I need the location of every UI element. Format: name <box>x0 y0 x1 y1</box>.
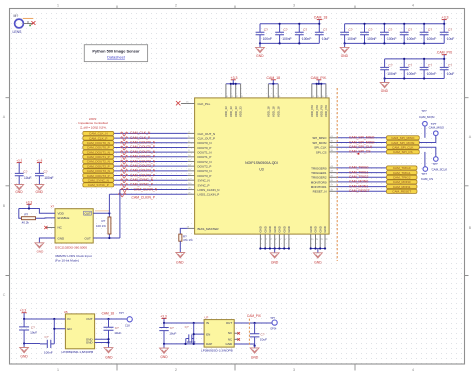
wire bank1 bottom rail <box>260 42 319 44</box>
U3 pin VDD_PIX <box>310 84 315 117</box>
port CAM_CLK_N <box>83 131 114 135</box>
svg-text:SPI_CS: SPI_CS <box>316 150 327 154</box>
svg-text:NOIP1SN0500A-QDI: NOIP1SN0500A-QDI <box>245 161 278 165</box>
U3 pin DOUT1_P <box>188 155 212 159</box>
svg-text:10uF: 10uF <box>447 72 455 76</box>
U3 pin VDD_PIX <box>319 84 324 117</box>
svg-text:LP38693SD-3.3/NOPB: LP38693SD-3.3/NOPB <box>201 349 233 353</box>
net label CAM_DOUT2_P <box>130 164 156 168</box>
wire CAM_DOUT1_N <box>114 151 188 153</box>
svg-text:CAM_DOUT2_P: CAM_DOUT2_P <box>130 164 156 168</box>
svg-text:C?: C? <box>428 63 432 67</box>
svg-text:CAM_TRIG0: CAM_TRIG0 <box>349 166 369 170</box>
svg-text:LP38693SD-1.8/NOPB: LP38693SD-1.8/NOPB <box>62 350 94 354</box>
svg-text:VDD_PIX: VDD_PIX <box>310 105 314 117</box>
capacitor C? 10uF reg2 output <box>250 323 267 346</box>
capacitor C? 10uF bank1-4 <box>315 24 330 44</box>
svg-text:40.2k: 40.2k <box>22 220 30 224</box>
svg-text:GND: GND <box>251 356 259 360</box>
svg-text:C?: C? <box>283 28 287 32</box>
svg-text:C?: C? <box>185 325 189 329</box>
svg-text:CAM_RESET: CAM_RESET <box>349 189 370 193</box>
junction EN reg2 <box>193 333 195 335</box>
wire CAM_DOUT3_N <box>114 170 188 172</box>
net label CAM_DOUT1_P <box>130 155 156 159</box>
U3 pin DOUT1_N <box>188 150 212 154</box>
frame column divider ticks bottom <box>117 364 355 371</box>
capacitor C? 100nF bank1-3 <box>295 24 311 44</box>
note LVDS impedance controlled <box>78 117 108 130</box>
power label +1.8 cap B <box>36 159 42 165</box>
svg-text:CAM_DOUT2_N: CAM_DOUT2_N <box>130 159 156 163</box>
svg-text:CAM_DOUT3_N: CAM_DOUT3_N <box>87 169 110 173</box>
U3 pin GND 50 <box>314 226 319 248</box>
svg-text:CAM_TRIG1: CAM_TRIG1 <box>393 171 411 175</box>
wire EN branch <box>51 319 65 344</box>
U3 pin CLK_PLL <box>181 101 211 106</box>
net label CAM_MON0 <box>349 180 368 184</box>
svg-text:GND: GND <box>20 355 28 359</box>
U3 pin DOUT3_N <box>188 169 212 173</box>
svg-text:CAM_SPI_MISO: CAM_SPI_MISO <box>349 136 375 140</box>
svg-text:TP?: TP? <box>270 316 275 320</box>
wire CAM_DOUT2_P <box>114 165 188 167</box>
svg-text:VDD_33: VDD_33 <box>239 106 243 117</box>
net label CAM_SPI_CS <box>349 150 371 154</box>
junctions bank3 <box>384 58 446 80</box>
wire input rail reg1 <box>24 318 65 320</box>
diff pair directive CAM_SYNC_P <box>120 184 128 188</box>
junction out reg2 <box>254 322 256 324</box>
svg-text:CAM_SYNC_N: CAM_SYNC_N <box>88 178 109 182</box>
diff pair directive CAM_DOUT2_N <box>120 160 128 164</box>
wire to ground <box>179 241 181 252</box>
svg-text:DOUT0_N: DOUT0_N <box>198 141 212 145</box>
svg-text:TRIGGER2: TRIGGER2 <box>311 176 327 180</box>
svg-text:+3.3: +3.3 <box>16 159 22 163</box>
svg-text:GND: GND <box>314 226 318 232</box>
net label CAM_CLKIN_P <box>132 195 156 199</box>
net label CAM_SYNC_P <box>130 183 154 187</box>
wire CAM_CLKIN_P <box>109 193 187 195</box>
U3 pin VDD_PIX <box>324 84 329 117</box>
junction out reg1 <box>107 318 109 320</box>
svg-text:CAM_DOUT1_N: CAM_DOUT1_N <box>130 150 156 154</box>
svg-text:CLK_OUT_P: CLK_OUT_P <box>198 136 216 140</box>
wire input rail reg2 <box>164 322 204 324</box>
svg-text:U?: U? <box>205 315 209 319</box>
svg-text:SYNC_N: SYNC_N <box>198 179 210 183</box>
wire CAM_DOUT3_P <box>114 175 188 177</box>
svg-text:CAM_SCLK: CAM_SCLK <box>432 167 448 171</box>
svg-text:SPI_CLK: SPI_CLK <box>314 146 326 150</box>
svg-text:CPIX: CPIX <box>270 327 276 331</box>
power label +3.3 osc <box>26 200 33 208</box>
svg-text:Z_diff = 100Ω 0.5%: Z_diff = 100Ω 0.5% <box>80 126 106 130</box>
diff pair directive CAM_DOUT0_N <box>120 141 128 145</box>
svg-text:100 1%: 100 1% <box>96 224 106 228</box>
net label CAM_CLK_P <box>130 136 151 140</box>
svg-text:DOUT2_P: DOUT2_P <box>198 165 212 169</box>
net label CAM_SYNC_N <box>130 178 154 182</box>
U3 pin GND 1 <box>259 226 263 248</box>
diff pair directive CAM_DOUT1_N <box>120 151 128 155</box>
svg-text:MONITOR1: MONITOR1 <box>311 185 327 189</box>
U3 pin VDD_33 <box>239 84 244 117</box>
U3 pin GND 6 <box>282 226 286 248</box>
capacitor C? 10uF bank2-6 <box>440 24 455 44</box>
svg-text:CAM_DOUT1_P: CAM_DOUT1_P <box>87 155 110 159</box>
frame row letters right <box>469 135 472 230</box>
power label +3.3 reg2 <box>160 314 167 323</box>
svg-text:C?: C? <box>428 28 432 32</box>
power label +3.3 cap A <box>16 159 22 165</box>
svg-text:DAP: DAP <box>206 342 212 346</box>
U3 pin VDD_18 <box>267 84 272 117</box>
junction EN <box>53 328 55 330</box>
diff pair directive CAM_CLK_N <box>120 132 128 136</box>
IC U3 body NOIP1SN0500A-QDI <box>195 98 330 234</box>
port CAM_DOUT1_N <box>83 150 114 154</box>
wire bottom rail reg2 <box>164 343 204 345</box>
svg-text:(For 10-bit Mode): (For 10-bit Mode) <box>55 259 79 263</box>
svg-text:CAM_CS: CAM_CS <box>421 177 433 181</box>
port CAM_TRIG1 <box>386 171 417 175</box>
capacitor C? 100nF rail B <box>35 165 54 185</box>
svg-text:LVDS_CLKIN_P: LVDS_CLKIN_P <box>198 193 220 197</box>
U3 pin SPI_MISO <box>312 136 336 140</box>
svg-text:GND: GND <box>323 226 327 232</box>
svg-text:U5: U5 <box>64 310 68 314</box>
svg-text:VDD_18: VDD_18 <box>267 106 271 117</box>
diff pair directive CAM_DOUT3_P <box>120 174 128 178</box>
net label CAM_DOUT2_N <box>130 159 156 163</box>
svg-text:CAM_DOUT0_P: CAM_DOUT0_P <box>130 145 156 149</box>
U3 pin VDD_PIX <box>315 84 320 117</box>
svg-text:GND: GND <box>160 355 168 359</box>
ERC marker <box>358 153 360 155</box>
svg-text:M?: M? <box>14 14 19 18</box>
junctions gnd reg1 <box>107 338 109 344</box>
svg-text:CAM_CLKIN_N: CAM_CLKIN_N <box>134 187 158 191</box>
svg-text:10uF: 10uF <box>24 176 32 180</box>
svg-text:EN: EN <box>67 327 71 331</box>
wire to TP CAM_MISO <box>419 136 436 143</box>
power label CAM_18 <box>314 16 328 24</box>
regulator U5 LP38693 1.8V body <box>64 310 95 349</box>
svg-text:C?: C? <box>44 170 48 174</box>
wire up to CAM_CLKIN_N <box>119 190 121 238</box>
wire CAM_CLKIN_N <box>120 189 188 191</box>
wire resistor to ENABLE <box>36 217 56 219</box>
junctions CAM_18 bus <box>272 83 274 85</box>
svg-text:GND: GND <box>58 236 66 240</box>
svg-text:CAM_MON0: CAM_MON0 <box>393 180 411 184</box>
wire CAM_SYNC_N <box>114 179 188 181</box>
ground bank2 <box>340 43 349 57</box>
U3 pin DOUT0_P <box>188 146 212 150</box>
svg-text:GND: GND <box>314 261 322 265</box>
port CAM_SYNC_P <box>83 183 114 187</box>
svg-text:GND: GND <box>37 249 45 253</box>
capacitor C? 10uF reg1 input <box>19 319 37 344</box>
wire to TP CAM_SCLK <box>419 147 436 157</box>
svg-text:LENS: LENS <box>13 30 23 34</box>
ground bank3 <box>380 79 389 93</box>
svg-text:CAM_DOUT1_P: CAM_DOUT1_P <box>130 155 156 159</box>
frame row letters left <box>3 115 6 297</box>
svg-text:CAM_DOUT3_P: CAM_DOUT3_P <box>87 174 110 178</box>
frame column numbers top <box>57 3 415 8</box>
title note box <box>84 45 147 62</box>
svg-text:C?: C? <box>448 28 452 32</box>
wire CAM_18 top bus <box>268 83 278 85</box>
U3 pin TRIGGER1 <box>311 171 336 175</box>
svg-text:CAM_TRIG1: CAM_TRIG1 <box>349 170 369 174</box>
svg-text:R?: R? <box>24 213 28 217</box>
svg-text:DOUT2_N: DOUT2_N <box>198 160 212 164</box>
U3 pin TRIGGER2 <box>311 175 336 179</box>
diff pair directive CAM_CLKIN_P <box>118 193 126 197</box>
no-connect X on lens pin <box>31 21 35 25</box>
svg-text:CAM_MISO: CAM_MISO <box>429 126 445 130</box>
capacitor C? 100nF bank1-1 <box>256 24 272 44</box>
test point TP? CAM_MOSI <box>419 109 435 126</box>
test point TP? CPIX <box>270 316 277 331</box>
svg-text:360MHz LVDS Clock Input: 360MHz LVDS Clock Input <box>55 254 92 258</box>
svg-text:VDD_18: VDD_18 <box>276 106 280 117</box>
svg-text:CAM_TRIG0: CAM_TRIG0 <box>393 166 411 170</box>
svg-text:SPI_MISO: SPI_MISO <box>312 136 327 140</box>
svg-text:CAM_PIX: CAM_PIX <box>311 76 327 80</box>
svg-text:CAM_DOUT0_N: CAM_DOUT0_N <box>130 141 156 145</box>
svg-text:Python 500 Image Sensor: Python 500 Image Sensor <box>92 49 140 54</box>
svg-text:CAM_SYNC_P: CAM_SYNC_P <box>88 183 109 187</box>
svg-text:GND: GND <box>268 226 272 232</box>
ground reg2 output <box>250 346 259 360</box>
wire BIAS_MASTER <box>180 228 187 234</box>
wire CAM_CLK_P <box>114 137 188 139</box>
svg-text:+3.3: +3.3 <box>20 309 27 313</box>
svg-text:CAM_PIX: CAM_PIX <box>437 51 453 55</box>
wire CAM_TRIG2 <box>336 176 386 178</box>
U3 pin DOUT2_N <box>188 160 212 164</box>
frame row divider ticks left <box>6 98 10 276</box>
osc NC stub <box>47 227 56 229</box>
net label CAM_TRIG1 <box>349 170 369 174</box>
net label CAM_DOUT0_P <box>130 145 156 149</box>
svg-text:100nF: 100nF <box>407 37 416 41</box>
svg-text:OUT: OUT <box>226 321 233 325</box>
svg-text:TP?: TP? <box>432 162 438 166</box>
svg-text:C?: C? <box>170 326 174 330</box>
svg-text:100nF: 100nF <box>302 37 311 41</box>
port CAM_TRIG0 <box>386 166 417 170</box>
svg-text:CAM_SYNC_P: CAM_SYNC_P <box>130 183 154 187</box>
wire CAM_SYNC_P <box>114 184 188 186</box>
diff pair directive CAM_DOUT0_P <box>120 146 128 150</box>
svg-text:VDD_33: VDD_33 <box>229 106 233 117</box>
svg-text:C?: C? <box>303 28 307 32</box>
svg-text:CAM_SPI_MOSI: CAM_SPI_MOSI <box>349 140 374 144</box>
wire GND osc <box>39 238 55 243</box>
ground <box>270 249 279 265</box>
svg-text:100nF: 100nF <box>282 37 291 41</box>
svg-text:TRIGGER0: TRIGGER0 <box>311 166 327 170</box>
U3 pin SPI_CLK <box>314 145 336 149</box>
svg-text:C18: C18 <box>125 323 130 327</box>
svg-text:CAM_SPI_CS: CAM_SPI_CS <box>349 150 371 154</box>
svg-text:CAM_CLK_P: CAM_CLK_P <box>130 136 151 140</box>
U3 pin VDD_18 <box>276 84 281 117</box>
ground reg2 input <box>160 344 169 359</box>
capacitor C? 100nF bank2-4 <box>400 24 416 44</box>
no-connect X reg2 NC1 <box>237 332 240 335</box>
wire CAM_DOUT1_P <box>114 156 188 158</box>
svg-text:C?: C? <box>323 28 327 32</box>
ground bank1 <box>256 43 265 57</box>
svg-text:100nF: 100nF <box>367 37 376 41</box>
capacitor C? 10uF rail A <box>15 165 32 185</box>
net label CAM_CLK_N <box>130 131 151 135</box>
U3 pin CLK_OUT_P <box>188 136 215 140</box>
svg-text:100nF: 100nF <box>44 350 53 354</box>
capacitor C? 10uF reg2 input <box>159 323 176 344</box>
svg-text:100nF: 100nF <box>347 37 356 41</box>
svg-text:TP?: TP? <box>421 109 427 113</box>
svg-text:OUT: OUT <box>84 236 91 240</box>
capacitor C? 100nF bank2-1 <box>340 24 356 44</box>
svg-text:CAM_MON1: CAM_MON1 <box>349 184 368 188</box>
frame column divider ticks top <box>117 6 355 9</box>
wire bank1 top rail <box>260 23 319 25</box>
capacitor C? 100nF bank1-2 <box>275 24 291 44</box>
U3 pin GND 7 <box>287 226 291 248</box>
capacitor C? 100nF bank3-1 <box>380 59 396 79</box>
diff pair directive CAM_CLK_P <box>120 137 128 141</box>
svg-text:CAM_TRIG2: CAM_TRIG2 <box>393 176 411 180</box>
capacitor C? 100nF bank3-2 <box>400 59 416 79</box>
svg-text:C?: C? <box>45 335 49 339</box>
svg-text:10uF: 10uF <box>447 37 455 41</box>
ground <box>176 253 185 265</box>
net label CAM_DOUT1_N <box>130 150 156 154</box>
wire CAM_MON1 <box>336 186 386 188</box>
junctions bank2 <box>344 23 446 45</box>
port CAM_RESET <box>386 189 417 193</box>
svg-text:VDD_33: VDD_33 <box>224 106 228 117</box>
svg-text:GND: GND <box>263 226 267 232</box>
svg-text:+1.8: +1.8 <box>36 159 42 163</box>
wire to TP CAM_MOSI <box>424 126 426 138</box>
svg-text:CAM_CLKIN_P: CAM_CLKIN_P <box>132 195 156 199</box>
svg-text:DOUT1_P: DOUT1_P <box>198 155 212 159</box>
net label CAM_MON1 <box>349 184 368 188</box>
U3 pin GND 5 <box>278 226 282 248</box>
U3 pin VDD_33 <box>234 84 239 117</box>
wire CAM_SPI_MOSI <box>336 142 386 144</box>
svg-text:CAM_SPI_CLK: CAM_SPI_CLK <box>392 145 414 149</box>
port CAM_TRIG2 <box>386 175 417 179</box>
lens pin tick <box>27 21 29 24</box>
svg-text:CAM_DOUT2_N: CAM_DOUT2_N <box>87 160 110 164</box>
wire CAM_RESET <box>336 190 386 192</box>
U3 pin GND 49 <box>309 226 314 248</box>
wires GND pins reg1 <box>95 339 109 347</box>
svg-text:CAM_18: CAM_18 <box>102 312 115 316</box>
svg-text:CAM_MON0: CAM_MON0 <box>349 180 368 184</box>
net label CAM_DOUT3_N <box>130 169 156 173</box>
lens directive line <box>23 17 34 19</box>
frame column numbers bottom <box>57 367 415 372</box>
port CAM_DOUT0_N <box>83 141 114 145</box>
wire CAM_MON0 <box>336 181 386 183</box>
svg-text:LVDS_CLKIN_N: LVDS_CLKIN_N <box>198 188 220 192</box>
capacitor C? 100nF reg2 <box>185 325 196 344</box>
svg-text:C?: C? <box>388 63 392 67</box>
U3 pin SPI_CS <box>316 150 336 154</box>
capacitor C? 100nF bank2-5 <box>420 24 436 44</box>
net label CAM_SPI_CLK <box>349 145 373 149</box>
wire CAM_SPI_CS <box>336 151 386 153</box>
ground reg1 input <box>20 344 29 359</box>
svg-text:TP?: TP? <box>119 311 124 315</box>
svg-text:DOUT1_N: DOUT1_N <box>198 151 212 155</box>
port CAM_DOUT2_N <box>83 159 114 163</box>
power label CAM_PIX <box>311 76 327 84</box>
U3 pin TRIGGER0 <box>311 166 336 170</box>
svg-text:LVDS: LVDS <box>89 117 97 121</box>
oscillator X? DSC1103DI5 body <box>51 205 94 243</box>
svg-text:CAM_SPI_CLK: CAM_SPI_CLK <box>349 145 373 149</box>
port CAM_MON0 <box>386 180 417 184</box>
svg-text:C?: C? <box>408 63 412 67</box>
svg-text:VDD_PIX: VDD_PIX <box>319 105 323 117</box>
port CAM_DOUT3_P <box>83 173 114 177</box>
net label CAM_SPI_MISO <box>349 136 375 140</box>
svg-text:IN: IN <box>67 317 70 321</box>
svg-text:X?: X? <box>51 205 55 209</box>
svg-text:DOUT0_P: DOUT0_P <box>198 146 212 150</box>
svg-text:C?: C? <box>448 63 452 67</box>
port CAM_DOUT2_P <box>83 164 114 168</box>
svg-text:GND: GND <box>105 355 113 359</box>
directive line osc out <box>95 210 109 212</box>
svg-text:C: C <box>3 293 6 297</box>
dashed directive line right column <box>336 88 338 261</box>
svg-text:GND: GND <box>341 54 349 58</box>
U3 pin DOUT0_N <box>188 141 212 145</box>
capacitor C? 100nF bank3-3 <box>420 59 436 79</box>
net label CAM_CLKIN_N <box>134 187 158 191</box>
ERC marker dot <box>29 25 31 27</box>
resistor R? 47k 1% <box>179 234 193 242</box>
svg-text:CAM_CLK_N: CAM_CLK_N <box>130 131 151 135</box>
wire to TP CAM_CS <box>424 152 426 167</box>
wire bottom rail reg1 <box>24 343 40 345</box>
wire up to CAM_CLKIN_P <box>108 194 110 213</box>
port CAM_SPI_MISO <box>386 136 419 140</box>
U3 pin RESET_N <box>313 189 337 193</box>
svg-text:GND: GND <box>256 54 264 58</box>
svg-text:100nF: 100nF <box>407 72 416 76</box>
U3 pin DOUT3_P <box>188 174 212 178</box>
svg-text:CAM_SPI_MISO: CAM_SPI_MISO <box>391 136 415 140</box>
U3 pin CLK_OUT_N <box>188 132 216 136</box>
junction bottom reg1 <box>23 342 25 344</box>
junctions +3.3 bus <box>230 83 237 85</box>
U3 pin VDD_33 <box>224 84 229 117</box>
